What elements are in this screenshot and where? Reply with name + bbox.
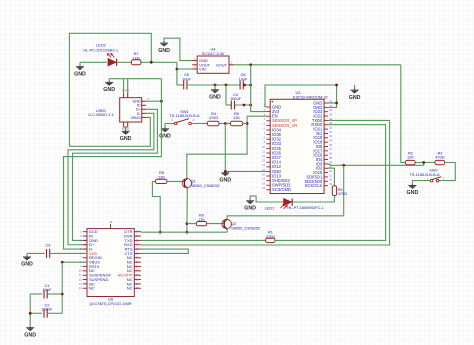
wire U2 VBUS	[62, 261, 87, 263]
svg-text:1kΩ: 1kΩ	[133, 55, 140, 60]
svg-text:HL-PT-1608S92FC-L: HL-PT-1608S92FC-L	[287, 205, 324, 210]
svg-text:GND: GND	[103, 87, 115, 93]
wire IO0 down to Q2 collector	[343, 165, 345, 216]
junction R4 R6	[224, 122, 227, 125]
connector USB1 U-C-M5DD-Y-1	[120, 93, 146, 127]
wire GND to LED2 cathode	[80, 61, 107, 63]
wire 5V down to input cap	[176, 62, 178, 85]
svg-text:SCK/CLK: SCK/CLK	[305, 183, 323, 188]
resistor R4	[207, 121, 219, 125]
wire C1 right	[47, 293, 62, 295]
wire USB ground loop to U2	[64, 79, 162, 249]
wire caps left down to ground	[29, 294, 31, 326]
capacitor C1	[44, 290, 47, 299]
wire C8 to 3V3 drop	[244, 84, 251, 86]
svg-text:GND: GND	[158, 48, 170, 54]
capacitor C9	[47, 249, 50, 258]
wire USB VBUS loop	[69, 117, 150, 146]
wire C6 to C8	[187, 84, 240, 86]
svg-text:GND: GND	[74, 71, 86, 77]
wire C1 left	[30, 293, 42, 295]
ground left of U3	[221, 171, 229, 176]
regulator U4 SC1117-3.3V	[192, 56, 234, 73]
switch SW2	[430, 177, 441, 182]
wire shield bottom join	[124, 126, 128, 128]
svg-text:SC1117-3.3V: SC1117-3.3V	[202, 51, 225, 56]
junction C8 right	[243, 84, 246, 87]
ground below U4	[211, 88, 219, 93]
svg-text:470Ω: 470Ω	[435, 155, 444, 160]
wire ground stem right	[354, 85, 356, 89]
ground above U3 right	[351, 89, 359, 94]
wire GND stem	[79, 62, 81, 65]
LED1 HL-PT-1608S92FC-L	[281, 199, 293, 209]
svg-text:12K: 12K	[158, 174, 165, 179]
junction C2 left	[29, 312, 32, 315]
junction C4 branch	[225, 84, 228, 87]
junction IO0 Q2	[342, 164, 345, 167]
wire SW2 pin1 to ground	[412, 181, 430, 184]
LED2 power indicator	[107, 54, 116, 66]
capacitor C4	[231, 101, 234, 110]
svg-text:C9: C9	[46, 243, 51, 248]
wire shield ground run	[109, 78, 161, 80]
svg-text:GND: GND	[244, 206, 256, 212]
svg-text:VOUT: VOUT	[216, 62, 228, 67]
wire VBUS loop from USB1 to 5V rail	[69, 33, 151, 146]
svg-text:470Ω: 470Ω	[209, 115, 218, 120]
wire USB GND pin	[146, 100, 161, 102]
wire U3 EN to Q1 collector	[187, 116, 267, 178]
svg-text:GND: GND	[21, 262, 33, 268]
wire VBUS down to caps	[61, 262, 63, 313]
svg-text:GND: GND	[349, 95, 361, 101]
ground at SW1	[161, 127, 169, 132]
wire to U3 GND pin left	[265, 106, 266, 108]
svg-text:GND: GND	[219, 178, 231, 184]
wire R4 junction down to ground	[224, 124, 226, 172]
junction 3V3 drop lower	[249, 104, 252, 107]
ground below USB1	[122, 130, 130, 135]
ground at C9	[23, 256, 31, 261]
ground above U4	[160, 42, 168, 47]
capacitor C6	[184, 81, 187, 90]
junction ground pins	[335, 102, 338, 105]
transistor Q2 S8050	[222, 219, 231, 229]
wire R8 left down to DTR net	[152, 181, 160, 232]
svg-text:SCS/CMD: SCS/CMD	[272, 187, 291, 192]
wire to U3 GND pin	[225, 170, 266, 172]
junction 3.3V rail tap	[249, 63, 252, 66]
wire Q2 emitter to DTR net	[226, 229, 228, 233]
junction VIN tap	[176, 68, 179, 71]
ground below C2	[26, 326, 34, 331]
resistor R9	[196, 222, 206, 226]
resistor R1	[266, 238, 275, 242]
wire 3.3V to U3 3V3 pin	[251, 65, 267, 112]
svg-text:10uF: 10uF	[182, 76, 191, 81]
wire to C4	[226, 104, 231, 106]
wire Q1 emitter down to DTR net	[186, 188, 188, 232]
wire RXD net around to U3 TXD0	[141, 120, 390, 245]
wire TXD net from U2	[141, 239, 266, 241]
svg-text:470Ω: 470Ω	[266, 234, 275, 239]
wire 3.3V down to R2	[401, 65, 406, 163]
svg-text:NC: NC	[89, 286, 95, 291]
junction 3V3 drop	[249, 84, 252, 87]
resistor R7	[131, 60, 141, 65]
wire shield bottom stem	[125, 127, 127, 130]
svg-text:12K: 12K	[198, 217, 205, 222]
wire R7 to 5V node	[141, 61, 177, 63]
svg-text:S8050_C908252: S8050_C908252	[191, 183, 220, 188]
wire shield pin up 2	[127, 79, 129, 93]
wire R8 left stub	[152, 180, 155, 182]
wire USB D+ loop to U2	[73, 109, 158, 240]
svg-text:TS-1185-B-B-B-A: TS-1185-B-B-B-A	[409, 172, 440, 177]
wire to C6	[177, 84, 184, 86]
wire ground stem	[214, 85, 216, 88]
svg-text:TS-1185-B-B-B-A: TS-1185-B-B-B-A	[169, 113, 200, 118]
resistor R6	[230, 121, 242, 125]
wire RTS to CTS loopback	[141, 249, 188, 253]
junction R2 R3	[422, 161, 425, 164]
wire U4 GND pin to ground	[164, 38, 192, 60]
ic U2 CP2102-GMR	[83, 224, 141, 297]
wire U3 ground net top	[265, 85, 337, 107]
wire U3 IO0 to R2 R3 junction	[328, 163, 424, 166]
svg-text:12K: 12K	[407, 155, 414, 160]
junction EN with R6	[246, 122, 249, 125]
U2 pin numbers	[79, 221, 139, 290]
wire C9 ground stem	[26, 253, 28, 255]
wire to R9	[187, 223, 196, 225]
wire C2 right	[47, 312, 62, 314]
U3 left pin names	[272, 105, 297, 193]
wire C4 to 3V3 drop	[235, 104, 251, 106]
wire C2 left	[30, 312, 42, 314]
svg-text:ESP32-WROOM-32: ESP32-WROOM-32	[293, 94, 328, 99]
junction VBUS caps	[61, 261, 64, 264]
junction ground top	[335, 84, 338, 87]
svg-text:[JLCSMT]-CP2102-GMR: [JLCSMT]-CP2102-GMR	[90, 302, 132, 306]
node 3V3	[250, 84, 252, 86]
svg-text:100nF: 100nF	[41, 307, 53, 312]
capacitor C2	[44, 309, 47, 318]
svg-text:10uF: 10uF	[43, 287, 52, 292]
junction ground net	[224, 170, 227, 173]
wire DTR net from U2	[141, 231, 227, 233]
wire C9 to U2 VDD	[50, 252, 87, 254]
ground near LED2	[76, 65, 84, 70]
junction DTR R8	[159, 231, 162, 234]
svg-text:VIN: VIN	[199, 67, 206, 72]
wire U3 GND pin row1	[328, 102, 337, 104]
junction C1 right	[61, 293, 64, 296]
wire U3 IO2 to R5	[328, 168, 334, 186]
wire C4 branch down	[225, 85, 227, 105]
svg-text:GND: GND	[209, 95, 221, 101]
ground above USB1	[105, 81, 113, 86]
wire down to U3 GND pins right	[328, 85, 337, 107]
U3 pin numbers	[262, 100, 332, 190]
junction DTR Q1	[186, 231, 189, 234]
svg-text:HL-PC-2012S9AC-L: HL-PC-2012S9AC-L	[83, 47, 119, 52]
svg-text:GND: GND	[24, 332, 36, 338]
svg-text:GND: GND	[120, 136, 132, 142]
wire SW1 to R4	[192, 123, 208, 125]
wire Q2 collector to IO0 loop	[227, 216, 344, 220]
resistor R8	[156, 179, 167, 183]
wire R5 to LED1 anode	[293, 196, 335, 203]
svg-text:U-C-M5DD-Y-1: U-C-M5DD-Y-1	[88, 113, 114, 117]
U2 right pin names	[118, 229, 133, 291]
svg-text:470Ω: 470Ω	[338, 191, 347, 196]
wire R8 to Q1 base	[167, 180, 185, 182]
svg-text:GND: GND	[407, 190, 419, 196]
svg-text:100uF: 100uF	[230, 96, 242, 101]
wire R3 to SW2 pin2	[439, 163, 455, 181]
junction ground tap	[214, 84, 217, 87]
wire shield pin up	[123, 79, 125, 93]
svg-text:VBUS: VBUS	[131, 116, 142, 120]
junction R9 tap	[186, 222, 189, 225]
ground at SW2	[408, 184, 416, 189]
svg-text:NC: NC	[127, 286, 133, 291]
wire R9 to Q2 base	[207, 223, 225, 225]
svg-text:LED1: LED1	[265, 206, 275, 211]
wire LED2 anode to R7	[117, 61, 131, 63]
junction C4 right	[243, 104, 246, 107]
junction 5V node	[150, 61, 153, 64]
wire USB D- loop to U2	[68, 113, 154, 244]
wire SW1 pin1	[165, 123, 174, 125]
switch SW1	[174, 119, 191, 125]
wire 3.3V rail	[234, 64, 401, 66]
wire ground to C9	[27, 252, 45, 254]
svg-text:12K: 12K	[233, 115, 240, 120]
wire R4 to R6	[219, 123, 230, 125]
wire LED1 cathode to ground	[250, 196, 284, 202]
capacitor C8	[240, 81, 243, 90]
junction USB ground	[160, 100, 163, 103]
wire to U4 VIN	[177, 68, 192, 70]
ground at LED1	[246, 199, 254, 204]
U3 right pin names	[304, 101, 323, 189]
module U3 ESP32-WROOM-32	[266, 99, 328, 193]
resistor R5	[332, 186, 336, 196]
wire SW1 ground stem	[164, 124, 166, 128]
wire shield ground stem	[108, 79, 110, 81]
resistor R3	[435, 160, 445, 164]
wire R6 to EN net	[243, 123, 247, 125]
svg-text:S8050_C908252: S8050_C908252	[231, 226, 260, 231]
U2 left pin names	[89, 229, 111, 291]
resistor R2	[405, 160, 415, 164]
wire R1 around to U3 RXD0	[275, 125, 386, 241]
transistor Q1 S8050	[182, 179, 191, 189]
svg-text:10uF: 10uF	[239, 76, 248, 81]
wire R2 to R3	[415, 162, 435, 164]
